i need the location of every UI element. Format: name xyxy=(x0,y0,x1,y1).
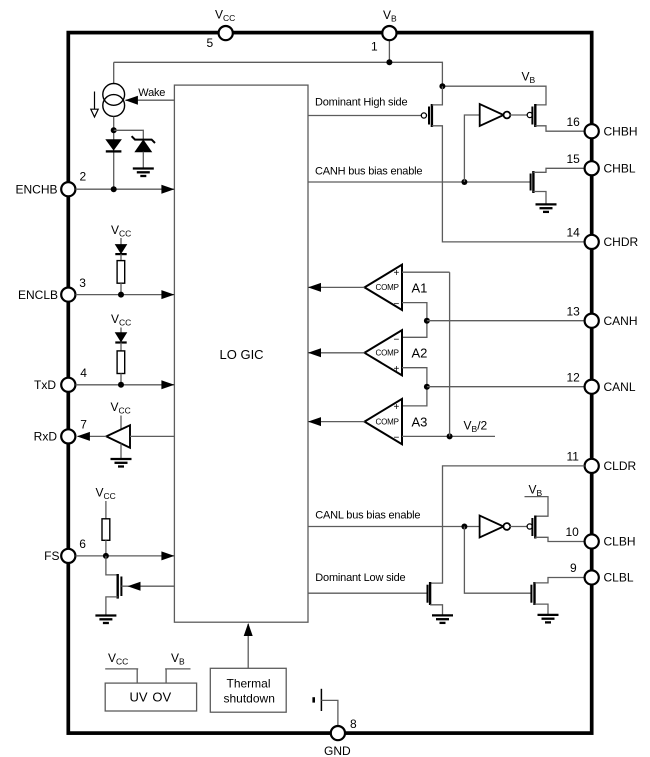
comparator A3 xyxy=(365,399,428,444)
wire VCC stub TxD xyxy=(120,328,122,334)
wire Q3 drain to pin 15 xyxy=(533,168,584,172)
pin 3 ENCLB xyxy=(18,276,86,302)
svg-text:+: + xyxy=(394,268,400,279)
pin 15 CHBL xyxy=(567,152,636,176)
svg-text:FS: FS xyxy=(44,549,59,563)
pin 13 CANH xyxy=(567,304,638,328)
current direction arrow xyxy=(91,92,98,118)
transistor Q3 (CHBL driver) xyxy=(531,171,534,193)
arrowhead ENCLB into LOGIC xyxy=(161,290,174,299)
comparator A2 xyxy=(365,330,428,375)
svg-text:UV: UV xyxy=(130,690,148,705)
svg-text:ENCLB: ENCLB xyxy=(18,288,58,302)
package border xyxy=(68,33,591,734)
pin 16 CHBH xyxy=(567,115,638,139)
svg-text:CHBH: CHBH xyxy=(604,124,638,138)
arrowhead FS into LOGIC xyxy=(161,551,174,560)
wire Q2 source to pin 16 xyxy=(535,126,584,131)
transistor Q1 (high side driver) xyxy=(421,104,432,127)
wire buffer ground stub xyxy=(120,444,122,459)
wire buffer input from LOGIC xyxy=(130,435,174,437)
svg-text:COMP: COMP xyxy=(376,417,399,426)
wire Q5 gate from LOGIC xyxy=(121,585,174,587)
svg-text:OV: OV xyxy=(152,690,171,705)
wire VCC stub FS xyxy=(105,501,107,519)
wire Q7 source to ground xyxy=(535,604,549,614)
node CANL tap xyxy=(424,384,430,390)
wire CANH to pin 13 xyxy=(427,320,585,322)
svg-text:Thermal: Thermal xyxy=(227,676,271,690)
wire CANL to pin 12 xyxy=(427,386,585,388)
battery symbol GND reference xyxy=(314,689,322,711)
wire riser to inverter input xyxy=(464,115,479,182)
wire CANH bias enable line xyxy=(308,181,531,183)
svg-text:7: 7 xyxy=(80,417,87,431)
LOGIC block U1 xyxy=(174,85,308,622)
node junction at Q1 drain branch xyxy=(439,83,445,89)
wire FS node to Q5 drain xyxy=(106,556,118,575)
svg-text:14: 14 xyxy=(567,226,581,240)
node FS junction xyxy=(103,553,109,559)
pin 2 ENCHB xyxy=(15,170,86,197)
wire Q1 source down to CHDR xyxy=(432,126,585,242)
arrowhead TxD into LOGIC xyxy=(161,380,174,389)
svg-text:+: + xyxy=(394,402,400,413)
wire Q1 drain up xyxy=(432,86,443,105)
wire A1 plus input xyxy=(402,271,450,273)
svg-text:Dominant Low side: Dominant Low side xyxy=(315,572,405,584)
svg-text:Dominant High side: Dominant High side xyxy=(315,96,407,108)
svg-text:−: − xyxy=(394,433,400,444)
svg-text:shutdown: shutdown xyxy=(224,691,275,705)
comparator A1 xyxy=(365,265,428,310)
wire wake output from LOGIC xyxy=(126,99,175,101)
wire A2 output to LOGIC xyxy=(308,352,365,354)
diode D3 xyxy=(115,245,126,255)
transistor Q7 (CLBL driver) xyxy=(531,582,534,605)
node ENCLB junction xyxy=(118,292,124,298)
resistor R1 xyxy=(117,261,125,284)
svg-text:Wake: Wake xyxy=(138,87,165,99)
arrowhead A2 out xyxy=(308,348,321,357)
svg-text:CHBL: CHBL xyxy=(604,162,636,176)
svg-text:CLBH: CLBH xyxy=(604,535,636,549)
transistor Q4 (CLBH driver) xyxy=(527,516,535,539)
ground below zener xyxy=(133,169,154,177)
diode D1 xyxy=(106,140,122,152)
wire ENCLB to LOGIC xyxy=(76,294,175,296)
svg-text:GND: GND xyxy=(324,744,351,757)
wire A3 output to LOGIC xyxy=(308,421,365,423)
wire zener to ground xyxy=(142,152,144,168)
wire VB to high-side transistors xyxy=(442,86,546,105)
transistor Q6 (low side driver) xyxy=(428,582,431,605)
transistor Q2 (CHBH driver) xyxy=(527,104,535,127)
wire diode to resistor xyxy=(120,254,122,261)
arrowhead A3 out xyxy=(308,417,321,426)
current source I1 (wake) xyxy=(103,84,125,117)
arrowhead wake into current source xyxy=(125,96,138,105)
node bias junction xyxy=(461,524,467,530)
svg-text:COMP: COMP xyxy=(376,283,399,292)
wire current source top xyxy=(113,62,115,83)
svg-text:16: 16 xyxy=(567,115,581,129)
svg-text:CANL bus bias enable: CANL bus bias enable xyxy=(315,509,420,521)
svg-text:TxD: TxD xyxy=(34,378,56,392)
arrowhead ENCHB into LOGIC xyxy=(161,185,174,194)
block Thermal shutdown xyxy=(210,668,286,712)
svg-text:15: 15 xyxy=(567,152,581,166)
svg-text:+: + xyxy=(394,364,400,375)
svg-text:5: 5 xyxy=(207,36,214,50)
svg-text:A2: A2 xyxy=(412,346,428,361)
wire Q5 source to ground xyxy=(106,597,118,615)
wire A1 minus input to CANH node xyxy=(402,303,427,338)
wire CLDR to Q6 drain xyxy=(430,466,584,583)
wire battery to pin 8 xyxy=(321,700,338,726)
svg-text:−: − xyxy=(394,299,400,310)
wire TxD to LOGIC xyxy=(76,384,175,386)
wire CANL bias enable line xyxy=(308,526,480,528)
arrowhead A1 out xyxy=(308,283,321,292)
wire resistor to TxD line xyxy=(120,374,122,385)
wire inverter out to Q4 gate xyxy=(510,526,528,528)
wire VB rail from wake source to right xyxy=(114,62,443,86)
svg-text:3: 3 xyxy=(79,276,86,290)
pin 8 GND xyxy=(324,717,357,757)
pin 11 CLDR xyxy=(567,450,637,474)
svg-text:10: 10 xyxy=(566,525,580,539)
arrowhead RxD out xyxy=(77,432,90,441)
pin 6 FS xyxy=(44,537,86,563)
pin 9 CLBL xyxy=(570,561,634,585)
svg-text:2: 2 xyxy=(80,170,87,184)
wire Q3 source to ground xyxy=(533,192,546,204)
diode D4 xyxy=(115,333,126,343)
wire VB bar to Q4 drain xyxy=(525,497,549,517)
wire ENCHB to LOGIC xyxy=(76,188,175,190)
svg-text:11: 11 xyxy=(567,450,580,464)
node CANH tap xyxy=(424,318,430,324)
node VB junction xyxy=(386,59,392,65)
wire Q6 source to ground xyxy=(430,605,442,615)
wire VB stub to UV OV xyxy=(165,669,190,683)
svg-text:CANH: CANH xyxy=(604,314,638,328)
svg-text:COMP: COMP xyxy=(376,349,399,358)
wire riser to Q7 gate xyxy=(464,527,531,594)
svg-text:A1: A1 xyxy=(412,280,428,295)
ground below Q6 xyxy=(432,615,453,623)
block UV OV xyxy=(105,683,196,711)
wire diode to resistor xyxy=(120,343,122,351)
inverter U4 xyxy=(480,516,511,538)
ground below RxD buffer xyxy=(111,459,132,467)
wire thermal shutdown to LOGIC xyxy=(247,624,249,668)
wire A3 minus input VB/2 stub xyxy=(402,435,495,437)
wire VCC stub RxD xyxy=(120,416,122,430)
svg-text:12: 12 xyxy=(567,370,581,384)
svg-text:LO GIC: LO GIC xyxy=(220,347,264,362)
node ENCHB junction xyxy=(111,186,117,192)
svg-text:A3: A3 xyxy=(412,415,428,430)
svg-text:CANL: CANL xyxy=(604,380,636,394)
wire resistor to ENCLB line xyxy=(120,283,122,294)
resistor R2 xyxy=(117,351,125,374)
svg-text:9: 9 xyxy=(570,561,577,575)
zener diode D2 xyxy=(132,136,155,152)
pin 5 VCC xyxy=(207,8,236,51)
pin 10 CLBH xyxy=(566,525,636,549)
buffer U2 RxD xyxy=(106,425,130,448)
wire VCC stub ENCLB xyxy=(120,238,122,245)
arrowhead gate drive xyxy=(128,582,141,591)
wire Dominant Low side to Q6 gate xyxy=(308,592,428,594)
wire resistor to FS line xyxy=(105,540,107,556)
transistor Q5 (FS clamp) xyxy=(118,574,122,599)
arrowhead thermal into LOGIC xyxy=(244,623,253,636)
wire FS to LOGIC xyxy=(76,555,175,557)
wire branch to zener xyxy=(114,130,144,140)
svg-text:4: 4 xyxy=(80,366,87,380)
ground below Q3 xyxy=(536,204,557,212)
pin 12 CANL xyxy=(567,370,636,394)
svg-text:RxD: RxD xyxy=(34,430,58,444)
wire Q4 source to pin 10 xyxy=(535,537,584,541)
node diode branch xyxy=(111,127,117,133)
svg-text:13: 13 xyxy=(567,304,581,318)
svg-text:−: − xyxy=(394,335,400,346)
wire pin1 stub xyxy=(388,40,390,62)
wire A2 plus input to CANL node xyxy=(402,368,427,406)
ground below Q5 xyxy=(95,616,116,624)
svg-text:CLBL: CLBL xyxy=(604,571,634,585)
svg-text:8: 8 xyxy=(350,717,357,731)
wire VB/2 riser to A1 plus xyxy=(449,272,451,436)
wire current source to ENCHB node xyxy=(113,117,115,190)
wire VCC stub to UV OV xyxy=(105,669,138,683)
wire Dominant High side to Q1 gate xyxy=(308,115,421,117)
svg-text:6: 6 xyxy=(79,537,86,551)
svg-text:CLDR: CLDR xyxy=(604,459,637,473)
svg-text:1: 1 xyxy=(371,40,378,54)
node bias riser junction xyxy=(461,179,467,185)
wire inverter out to Q2 gate xyxy=(510,114,528,116)
pin 14 CHDR xyxy=(567,226,639,250)
wire A1 output to LOGIC xyxy=(308,286,365,288)
wire buffer output to pin 7 xyxy=(78,435,107,437)
pin 1 VB xyxy=(371,8,397,54)
svg-text:CHDR: CHDR xyxy=(604,235,639,249)
svg-text:CANH bus bias enable: CANH bus bias enable xyxy=(315,166,422,178)
resistor R3 xyxy=(102,519,110,541)
pin 7 RxD xyxy=(34,417,88,443)
node VB/2 junction xyxy=(447,433,453,439)
node TxD junction xyxy=(118,382,124,388)
ground below Q7 xyxy=(538,615,559,623)
svg-text:ENCHB: ENCHB xyxy=(15,182,57,196)
pin 4 TxD xyxy=(34,366,87,392)
wire Q7 drain to pin 9 xyxy=(535,578,585,583)
inverter U3 xyxy=(480,104,511,126)
